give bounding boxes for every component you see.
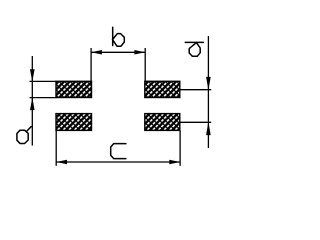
dim c extension line right xyxy=(179,130,181,166)
dim a arrow up xyxy=(30,97,35,110)
label b xyxy=(113,27,125,46)
label a (rotated) xyxy=(17,127,31,144)
pad top-left (hatched) xyxy=(56,81,92,97)
dim d dimension line xyxy=(207,36,209,148)
dim a extension line top xyxy=(30,80,57,82)
dim d arrow up xyxy=(206,122,211,135)
dim c arrow right xyxy=(169,160,180,165)
dim c arrow left xyxy=(56,160,67,165)
dim d extension line bottom xyxy=(180,121,211,123)
dim c extension line left xyxy=(55,130,57,165)
pad top-right (hatched) xyxy=(145,81,180,97)
dim d arrow down xyxy=(206,77,211,90)
label c xyxy=(111,144,126,159)
label d (rotated) xyxy=(185,42,203,56)
dim a dimension line xyxy=(31,56,33,146)
dim b arrow right xyxy=(134,50,145,55)
dim b arrow left xyxy=(91,50,102,55)
dim d extension line top xyxy=(180,89,211,91)
dim a extension line bottom xyxy=(30,97,57,99)
dim a arrow down xyxy=(30,69,35,82)
dim c dimension line xyxy=(56,161,180,163)
dim b extension line right xyxy=(144,48,146,81)
dim b extension line left xyxy=(90,48,92,81)
dim b dimension line xyxy=(91,51,145,53)
pad bottom-left (hatched) xyxy=(56,114,92,131)
pad bottom-right (hatched) xyxy=(145,114,180,131)
